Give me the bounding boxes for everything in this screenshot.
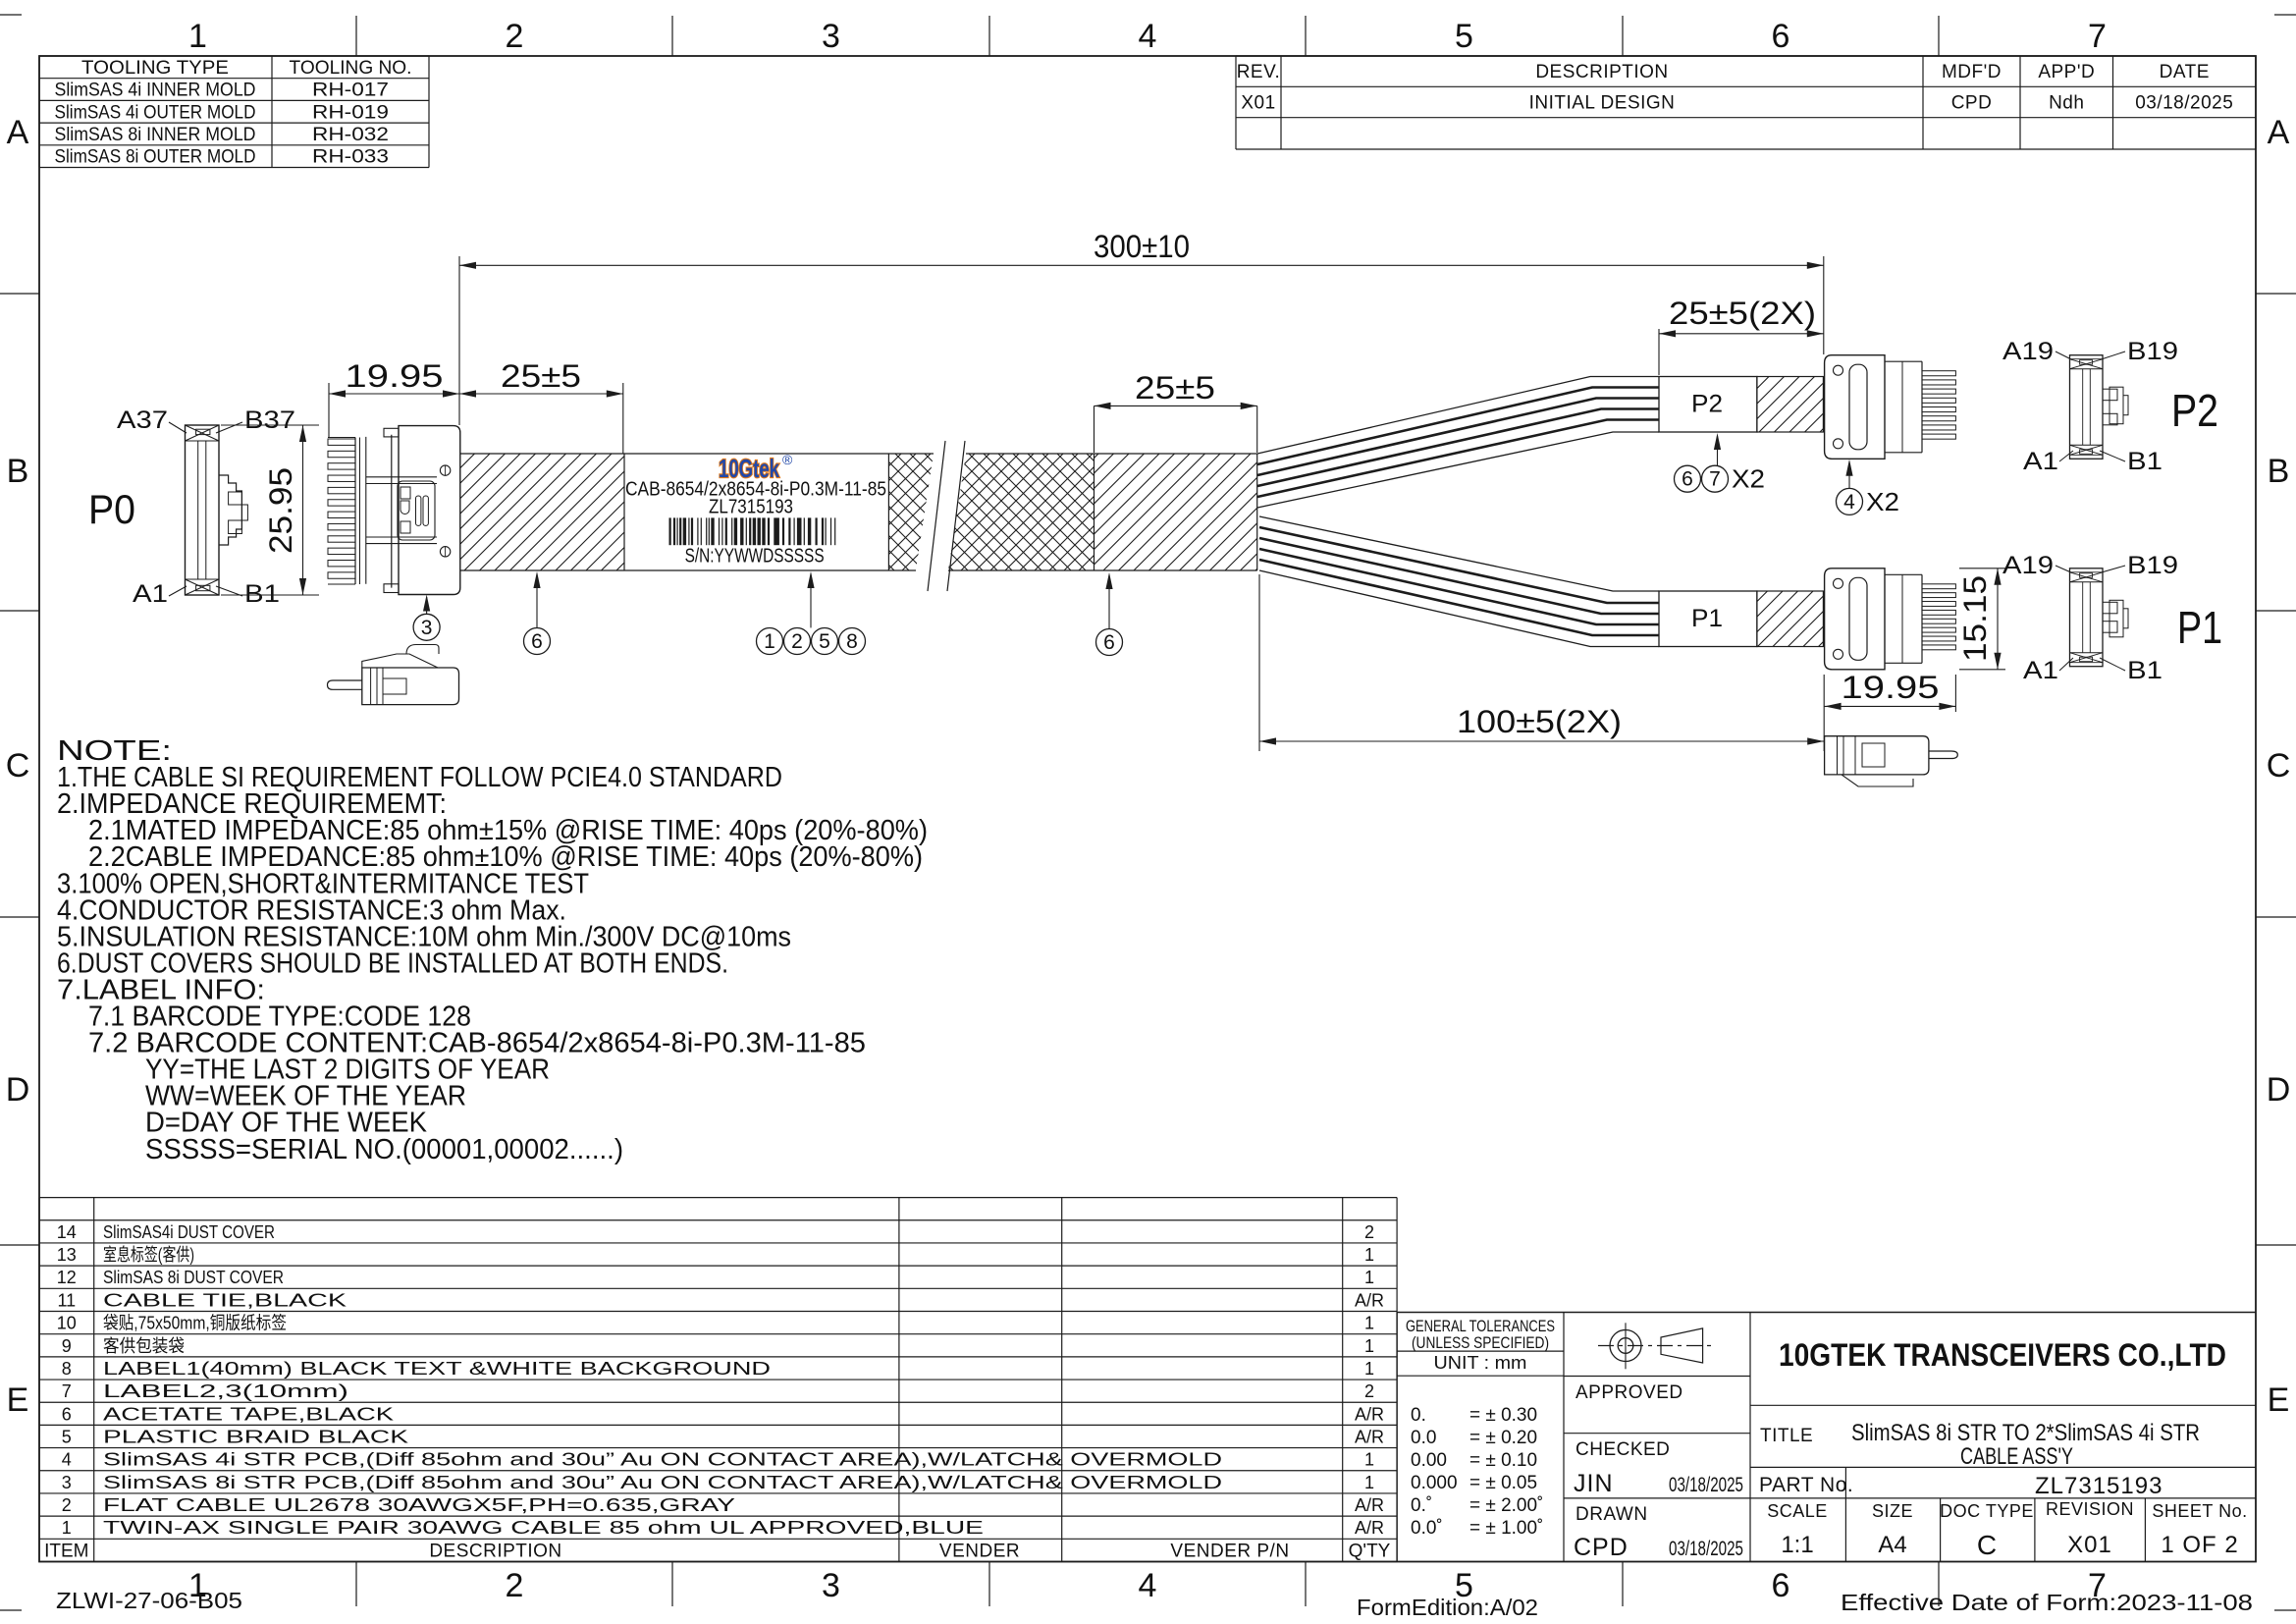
SlimSAS 8i dust cover (below P0) [362,668,459,705]
dimension 15.15 (P1 connector height) [1959,568,2005,569]
revision table [1236,55,2256,57]
svg-text:B1: B1 [2127,448,2163,475]
corner trim marks [0,14,22,16]
P1 branch hatch [1757,591,1824,647]
svg-text:SlimSAS 8i INNER MOLD: SlimSAS 8i INNER MOLD [55,125,256,145]
svg-text:D: D [2267,1071,2291,1109]
svg-text:2: 2 [506,18,524,55]
dimension 25+-5 right [1094,406,1095,453]
connector P0 overmold front view [354,438,356,585]
svg-text:D: D [6,1071,30,1109]
svg-text:RH-019: RH-019 [312,102,389,123]
svg-text:10: 10 [57,1314,77,1333]
svg-text:25±5(2X): 25±5(2X) [1669,296,1816,331]
braid crosshatch section with break [888,454,934,570]
svg-text:ITEM: ITEM [44,1541,88,1561]
dimension 25+-5 left [622,383,624,454]
svg-text:4: 4 [1139,18,1157,55]
svg-text:A1: A1 [2023,448,2058,475]
svg-text:25±5: 25±5 [501,358,581,394]
svg-text:P1: P1 [2177,602,2222,653]
svg-text:= ± 1.00˚: = ± 1.00˚ [1469,1518,1543,1539]
svg-text:5: 5 [819,630,830,653]
svg-text:SlimSAS 4i INNER MOLD: SlimSAS 4i INNER MOLD [55,81,256,101]
svg-text:MDF'D: MDF'D [1942,62,2002,82]
svg-text:SHEET No.: SHEET No. [2152,1501,2247,1521]
svg-text:3: 3 [822,1567,840,1604]
svg-text:X01: X01 [2067,1532,2112,1558]
svg-text:(UNLESS SPECIFIED): (UNLESS SPECIFIED) [1412,1333,1549,1352]
svg-text:2: 2 [1364,1222,1374,1242]
svg-text:A1: A1 [133,580,168,608]
svg-text:JIN: JIN [1574,1470,1614,1497]
svg-text:B37: B37 [244,406,295,434]
svg-text:REV.: REV. [1237,62,1281,82]
svg-text:DOC TYPE: DOC TYPE [1940,1501,2034,1521]
svg-text:1: 1 [1364,1245,1374,1265]
SlimSAS 4i dust cover (below P1) [1825,736,1929,775]
svg-text:03/18/2025: 03/18/2025 [1669,1474,1743,1496]
svg-text:INITIAL DESIGN: INITIAL DESIGN [1529,93,1676,114]
svg-text:6: 6 [1103,631,1115,654]
svg-text:5: 5 [62,1427,72,1446]
svg-text:ZLWI-27-06-B05: ZLWI-27-06-B05 [56,1588,242,1613]
cable break marks [928,441,945,591]
svg-text:1: 1 [1364,1473,1374,1492]
svg-text:6: 6 [1682,468,1693,491]
svg-text:4: 4 [1139,1567,1157,1604]
svg-text:2: 2 [506,1567,524,1604]
svg-text:= ± 2.00˚: = ± 2.00˚ [1469,1495,1543,1516]
svg-text:®: ® [782,452,793,467]
fan-out wire bundles [1257,377,1659,455]
svg-text:03/18/2025: 03/18/2025 [2135,93,2233,114]
svg-text:DESCRIPTION: DESCRIPTION [1535,62,1668,82]
svg-text:C: C [6,747,30,785]
dimension 100+-5(2X) [1258,574,1260,751]
svg-text:P2: P2 [2171,385,2218,436]
label area [887,454,889,570]
svg-text:12: 12 [57,1268,77,1287]
tooling table [39,55,429,57]
svg-text:SlimSAS 8i STR TO 2*SlimSAS 4i: SlimSAS 8i STR TO 2*SlimSAS 4i STR [1851,1420,2200,1446]
braid hatch section 1 [460,454,624,570]
BOM table [39,1197,1397,1199]
svg-text:0.0: 0.0 [1411,1428,1436,1448]
svg-text:A: A [7,114,29,151]
svg-text:P2: P2 [1691,391,1723,418]
part number row [1564,1497,2256,1499]
svg-text:1: 1 [62,1518,72,1538]
svg-text:14: 14 [57,1222,77,1242]
svg-text:B19: B19 [2127,552,2178,579]
svg-text:P1: P1 [1691,605,1723,632]
svg-text:UNIT : mm: UNIT : mm [1434,1353,1527,1373]
svg-text:Effective Date of Form:2023-11: Effective Date of Form:2023-11-08 [1841,1590,2253,1615]
connector P2 overmold side view [1825,355,1885,460]
svg-text:25±5: 25±5 [1135,370,1215,406]
title block [1397,1312,2256,1314]
svg-text:A/R: A/R [1355,1427,1384,1446]
svg-text:3: 3 [822,18,840,55]
svg-text:2: 2 [1364,1381,1374,1401]
svg-text:B1: B1 [2127,657,2163,684]
scale size doc rev sheet row [1844,1498,1846,1562]
connector P2 top view [2070,355,2104,460]
svg-text:TOOLING NO.: TOOLING NO. [290,58,412,79]
svg-text:ZL7315193: ZL7315193 [2035,1473,2163,1499]
callout 6 braid right [1096,629,1123,656]
connector P1 top view [2070,568,2104,667]
svg-text:S/N:YYWWDSSSSS: S/N:YYWWDSSSSS [685,546,825,568]
svg-text:A37: A37 [117,406,168,434]
svg-text:RH-032: RH-032 [312,125,389,145]
svg-text:SlimSAS 8i OUTER MOLD: SlimSAS 8i OUTER MOLD [55,147,256,168]
svg-text:6: 6 [1772,1567,1790,1604]
svg-text:B19: B19 [2127,338,2178,365]
svg-text:6: 6 [1772,18,1790,55]
svg-text:A/R: A/R [1355,1518,1384,1538]
svg-text:A19: A19 [2002,338,2054,365]
svg-text:SlimSAS 4i STR PCB,(Diff 85ohm: SlimSAS 4i STR PCB,(Diff 85ohm and 30u” … [103,1450,1222,1470]
zone row ticks and labels [0,293,39,295]
dimension 19.95 (P0 width) [328,383,330,438]
svg-text:19.95: 19.95 [1842,670,1940,705]
svg-text:SlimSAS4i DUST COVER: SlimSAS4i DUST COVER [103,1222,275,1242]
svg-text:3: 3 [421,617,433,639]
callout 4 X2 connector [1837,488,1863,514]
svg-text:袋贴,75x50mm,铜版纸标签: 袋贴,75x50mm,铜版纸标签 [103,1314,287,1333]
svg-text:SlimSAS 8i STR PCB,(Diff 85ohm: SlimSAS 8i STR PCB,(Diff 85ohm and 30u” … [103,1473,1222,1492]
svg-text:15.15: 15.15 [1957,575,1993,662]
svg-text:7: 7 [62,1381,72,1401]
svg-text:RH-017: RH-017 [312,81,389,101]
P1 branch jacket box [1659,591,1757,647]
svg-text:Ndh: Ndh [2049,93,2084,114]
svg-text:0.˚: 0.˚ [1411,1495,1432,1516]
svg-text:DATE: DATE [2160,62,2210,82]
svg-text:CABLE ASS'Y: CABLE ASS'Y [1960,1443,2073,1470]
third angle projection symbol [1610,1330,1641,1362]
svg-text:P0: P0 [88,486,135,532]
svg-text:PART No.: PART No. [1759,1474,1853,1496]
svg-text:8: 8 [846,630,858,653]
cable braid band [460,453,934,455]
svg-text:3: 3 [62,1473,72,1492]
svg-text:SSSSS=SERIAL NO.(00001,00002..: SSSSS=SERIAL NO.(00001,00002......) [145,1134,623,1165]
svg-text:= ± 0.05: = ± 0.05 [1469,1473,1537,1493]
svg-text:19.95: 19.95 [346,358,444,394]
svg-text:1: 1 [1364,1314,1374,1333]
svg-text:A1: A1 [2023,657,2058,684]
svg-text:A/R: A/R [1355,1290,1384,1310]
svg-text:B1: B1 [244,580,280,608]
svg-text:ZL7315193: ZL7315193 [709,497,793,518]
svg-text:LABEL2,3(10mm): LABEL2,3(10mm) [103,1381,348,1401]
svg-text:10GTEK TRANSCEIVERS CO.,LTD: 10GTEK TRANSCEIVERS CO.,LTD [1779,1337,2226,1373]
svg-text:0.00: 0.00 [1411,1450,1447,1471]
svg-text:PLASTIC BRAID BLACK: PLASTIC BRAID BLACK [103,1427,408,1446]
svg-text:1: 1 [1364,1450,1374,1470]
svg-text:100±5(2X): 100±5(2X) [1457,704,1622,739]
svg-text:TITLE: TITLE [1760,1426,1813,1446]
svg-text:TOOLING TYPE: TOOLING TYPE [81,58,229,79]
svg-text:C: C [2267,747,2291,785]
svg-text:RH-033: RH-033 [312,147,389,168]
svg-text:A/R: A/R [1355,1404,1384,1424]
tolerance box [1563,1313,1565,1562]
svg-text:25.95: 25.95 [263,467,298,554]
svg-text:11: 11 [57,1290,76,1310]
svg-text:5: 5 [1455,18,1473,55]
title cell [1750,1466,2256,1468]
svg-text:SIZE: SIZE [1872,1501,1913,1521]
svg-text:B: B [2268,453,2290,490]
svg-text:A: A [2268,114,2290,151]
svg-text:6: 6 [531,630,543,653]
svg-text:1: 1 [188,18,207,55]
svg-text:0.: 0. [1411,1405,1426,1426]
svg-text:6: 6 [62,1404,72,1424]
svg-text:1: 1 [1364,1336,1374,1356]
approval cells [1564,1376,1750,1378]
company name [1750,1404,2256,1406]
svg-text:13: 13 [57,1245,77,1265]
svg-text:CABLE TIE,BLACK: CABLE TIE,BLACK [103,1290,347,1310]
svg-text:7: 7 [2088,18,2107,55]
svg-text:CHECKED: CHECKED [1575,1439,1670,1460]
svg-text:= ± 0.30: = ± 0.30 [1469,1405,1537,1426]
svg-text:E: E [2268,1381,2290,1419]
svg-text:TWIN-AX SINGLE PAIR 30AWG CABL: TWIN-AX SINGLE PAIR 30AWG CABLE 85 ohm U… [103,1518,984,1538]
svg-text:REVISION: REVISION [2046,1499,2134,1519]
dimension 300+-10 overall [458,256,460,383]
P2 branch hatch [1757,377,1824,433]
svg-text:B: B [7,453,29,490]
svg-text:= ± 0.10: = ± 0.10 [1469,1450,1537,1471]
svg-text:FLAT CABLE UL2678 30AWGX5F,PH=: FLAT CABLE UL2678 30AWGX5F,PH=0.635,GRAY [103,1495,735,1515]
svg-text:A19: A19 [2002,552,2054,579]
P0 latch detail [398,481,435,540]
svg-text:03/18/2025: 03/18/2025 [1669,1538,1743,1560]
svg-text:客供包装袋: 客供包装袋 [103,1336,185,1356]
svg-text:0.0˚: 0.0˚ [1411,1518,1443,1539]
callout 3 overmold [413,614,440,640]
svg-text:1: 1 [1364,1359,1374,1379]
svg-text:DRAWN: DRAWN [1575,1504,1648,1525]
braid hatch section 2 [1095,454,1257,570]
svg-text:X01: X01 [1241,93,1275,114]
svg-text:4: 4 [1843,491,1855,514]
svg-text:室息标签(客供): 室息标签(客供) [103,1245,194,1265]
svg-text:C: C [1977,1530,1997,1560]
svg-text:VENDER P/N: VENDER P/N [1170,1541,1289,1561]
svg-text:9: 9 [62,1336,72,1356]
callouts 1 2 5 8 label [757,628,783,655]
svg-text:2: 2 [62,1495,72,1515]
P0 side view latch profile [219,475,241,545]
svg-text:APPROVED: APPROVED [1575,1382,1683,1403]
svg-text:X2: X2 [1866,487,1899,516]
svg-text:DESCRIPTION: DESCRIPTION [429,1541,561,1561]
barcode [669,517,671,545]
connector P0 mating-face side view [186,425,220,595]
svg-text:1: 1 [1364,1268,1374,1287]
svg-text:SlimSAS 4i OUTER MOLD: SlimSAS 4i OUTER MOLD [55,102,256,123]
svg-text:ACETATE TAPE,BLACK: ACETATE TAPE,BLACK [103,1404,394,1424]
svg-text:CPD: CPD [1951,93,1993,114]
svg-text:X2: X2 [1732,464,1765,494]
svg-text:LABEL1(40mm) BLACK TEXT &WHITE: LABEL1(40mm) BLACK TEXT &WHITE BACKGROUN… [103,1359,771,1379]
connector P1 overmold side view [1825,568,1885,670]
svg-text:2: 2 [791,630,803,653]
svg-text:1 OF 2: 1 OF 2 [2161,1532,2238,1558]
svg-text:4: 4 [62,1450,72,1470]
svg-text:CPD: CPD [1574,1534,1629,1561]
callout 6 braid left [524,628,551,655]
svg-text:A/R: A/R [1355,1495,1384,1515]
svg-text:1: 1 [764,630,775,653]
P0 screw holes [440,465,450,475]
svg-text:APP'D: APP'D [2038,62,2095,82]
zone column ticks and labels [355,16,357,56]
svg-text:0.000: 0.000 [1411,1473,1458,1493]
svg-text:Q'TY: Q'TY [1349,1541,1391,1561]
P2 branch jacket box [1659,377,1757,433]
svg-text:VENDER: VENDER [939,1541,1020,1561]
dimension 25+-5(2X) [1658,329,1660,375]
svg-text:E: E [7,1381,29,1419]
callout 6 7 X2 branch jacket [1675,465,1701,492]
svg-text:= ± 0.20: = ± 0.20 [1469,1428,1537,1448]
svg-text:FormEdition:A/02: FormEdition:A/02 [1357,1595,1538,1620]
dimension 25.95 (P0 height) [221,424,319,426]
svg-text:A4: A4 [1878,1532,1906,1558]
svg-text:1:1: 1:1 [1781,1532,1813,1558]
svg-text:SCALE: SCALE [1767,1501,1828,1521]
dimension 19.95 (P1 connector width) [1954,675,1956,712]
svg-text:7: 7 [1709,468,1721,491]
svg-text:300±10: 300±10 [1094,229,1190,264]
svg-text:8: 8 [62,1359,72,1379]
svg-text:SlimSAS 8i DUST COVER: SlimSAS 8i DUST COVER [103,1268,284,1287]
